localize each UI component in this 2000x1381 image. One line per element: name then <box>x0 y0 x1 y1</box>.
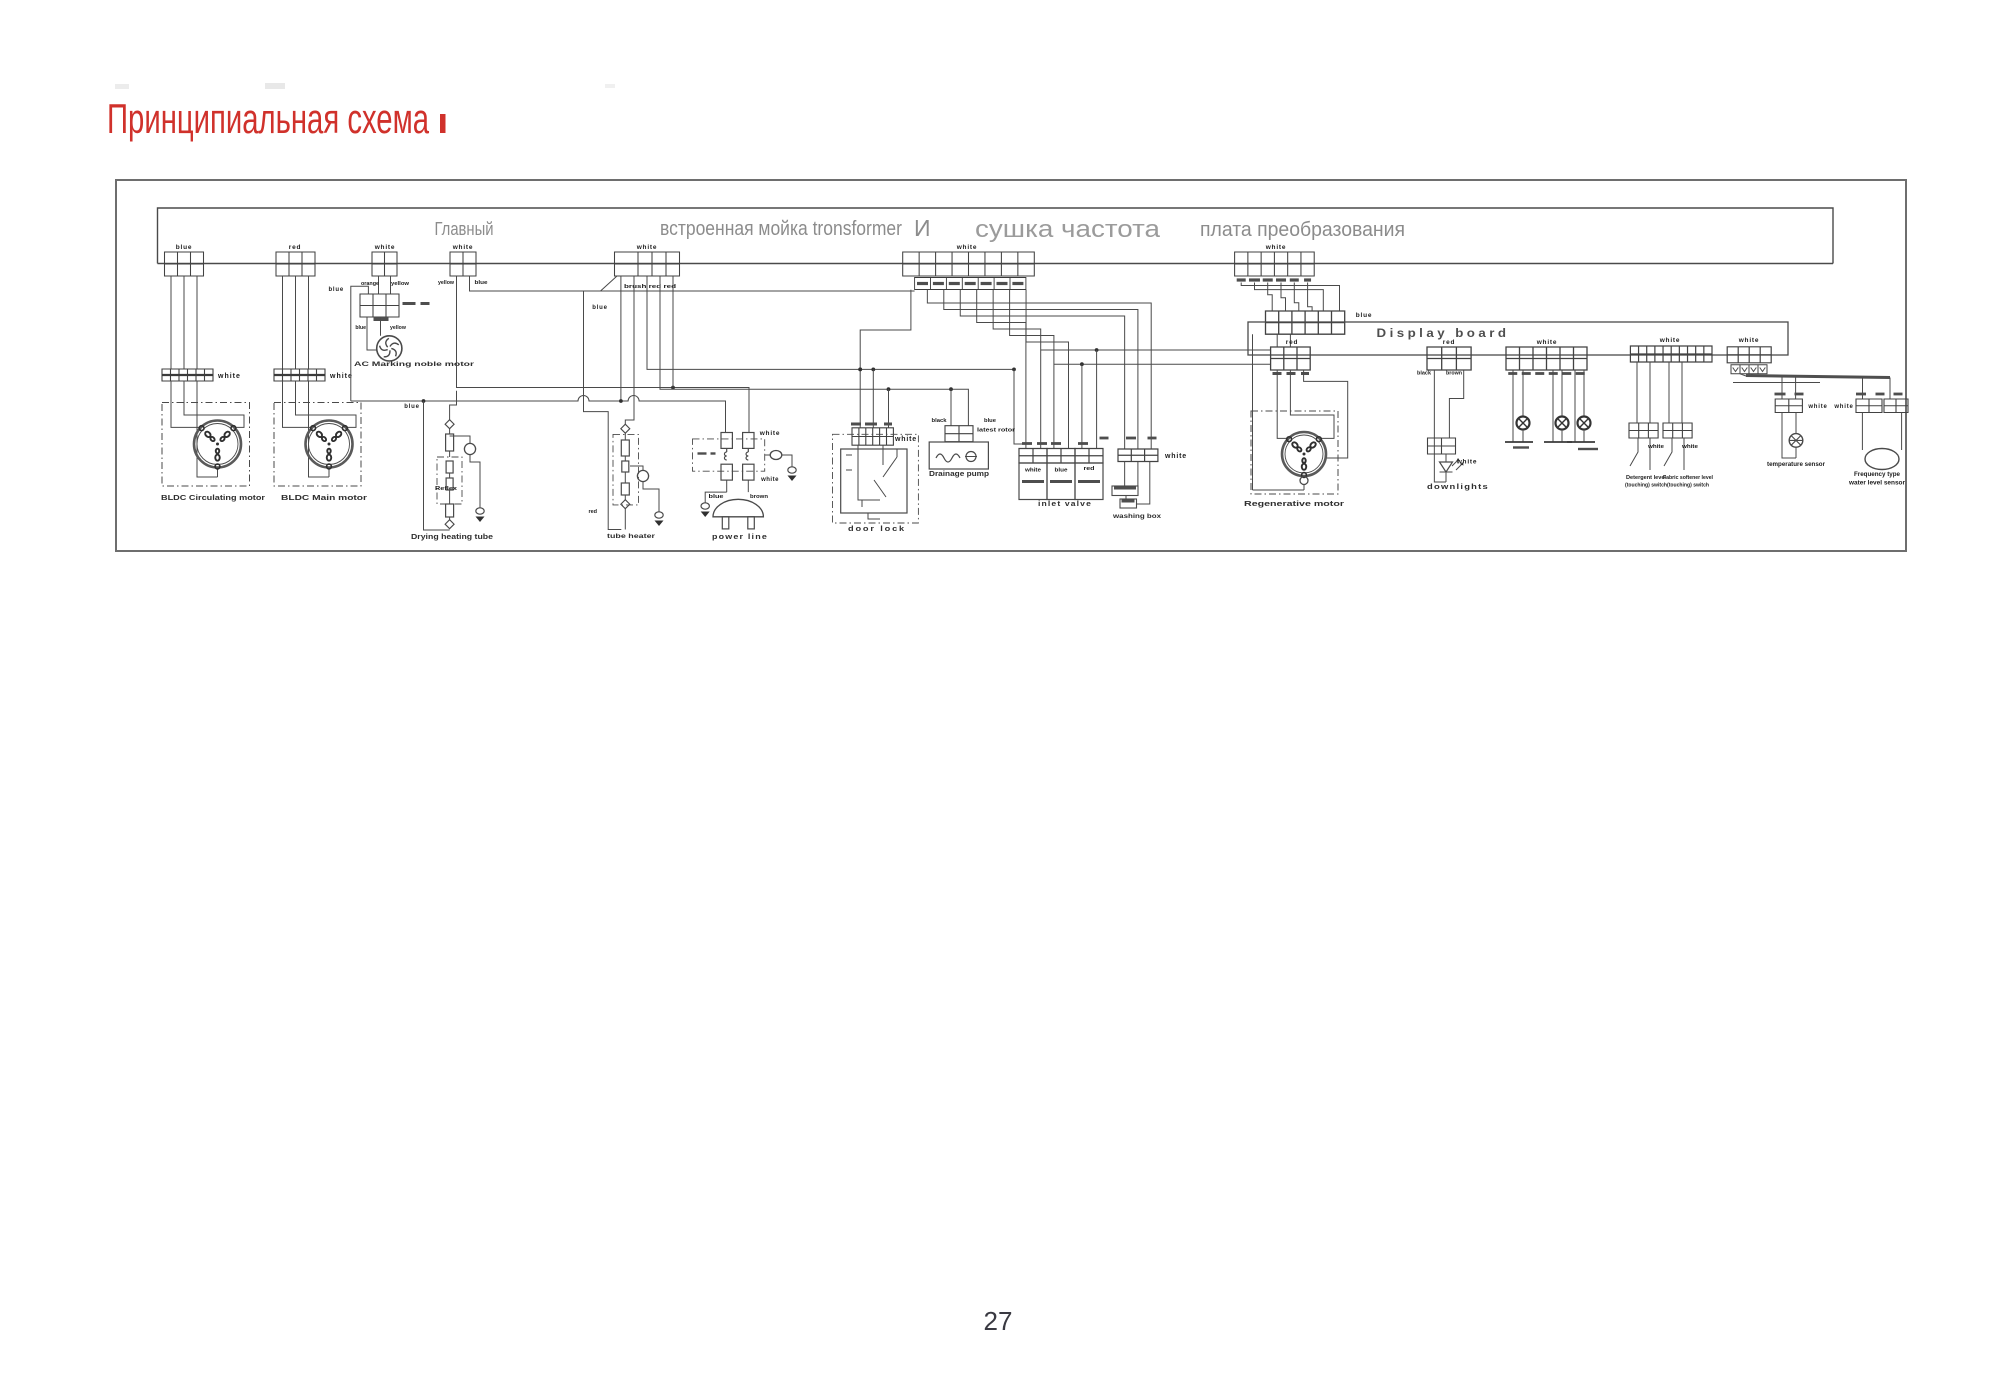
regenerative motor <box>1282 432 1326 476</box>
faint header artifacts <box>115 84 129 89</box>
svg-text:red: red <box>289 244 302 251</box>
svg-text:плата преобразования: плата преобразования <box>1200 219 1405 241</box>
wires J2 to motor M2 <box>283 381 313 427</box>
svg-text:Detergent level: Detergent level <box>1626 475 1667 481</box>
ground under tube heater <box>658 507 660 512</box>
motor M1 (BLDC circulating motor) <box>194 421 241 468</box>
svg-text:water level sensor: water level sensor <box>1848 481 1906 487</box>
svg-text:white: white <box>636 244 658 251</box>
drainage pump connector <box>945 426 973 442</box>
svg-text:blue: blue <box>475 280 488 286</box>
drying heating tube chain <box>445 420 454 429</box>
svg-text:white: white <box>1536 339 1558 346</box>
fan motor (AC) circle <box>377 336 402 361</box>
svg-text:сушка частота: сушка частота <box>975 216 1161 243</box>
wire CN5 pin2 to tube heater top <box>625 276 634 424</box>
junction strip J2 (white) <box>274 369 325 381</box>
svg-text:inlet valve: inlet valve <box>1038 499 1092 508</box>
connector CN5 (white) <box>615 252 680 276</box>
svg-text:встроенная мойка tronsformer: встроенная мойка tronsformer <box>660 218 902 240</box>
connector W3 (white) <box>1506 347 1587 370</box>
wire drop x583 to tube heater loop <box>584 291 622 530</box>
filter fuse right <box>743 433 754 449</box>
plug prong left <box>722 517 729 529</box>
CN7 to blue connector staircase wires <box>1241 283 1339 312</box>
svg-text:white: white <box>1647 444 1664 450</box>
wire L-upper from CN4 pin1 to filter <box>457 276 750 433</box>
svg-text:blue: blue <box>328 287 344 293</box>
wire CN4 pin2 to node at y291 <box>470 276 584 291</box>
detergent level switch symbol <box>1630 438 1638 466</box>
tube heater box (dash-dot) <box>613 434 639 505</box>
temperature sensor connector <box>1775 399 1802 413</box>
svg-text:white: white <box>1659 337 1681 344</box>
connector CN2 (red) <box>276 252 315 276</box>
svg-text:white: white <box>329 373 353 380</box>
wires T1 to fan motor <box>367 317 377 350</box>
svg-text:red: red <box>1443 339 1456 346</box>
filter inner marks <box>698 452 707 454</box>
long wire to regenerative area (b) <box>1054 363 1271 365</box>
filter coils <box>724 448 748 460</box>
svg-text:white: white <box>1833 404 1853 410</box>
svg-text:power line: power line <box>712 532 768 541</box>
door lock inner body <box>841 449 907 513</box>
wires J1 to motor M1 <box>171 381 201 427</box>
motor M2 (BLDC main motor) <box>306 421 353 468</box>
wire CNB pin1 down left side <box>1252 334 1254 490</box>
junction strip J1 (white) <box>162 369 213 381</box>
wire CN6 pin4 staircase to washing box <box>960 290 1124 449</box>
svg-text:27: 27 <box>984 1306 1013 1336</box>
filter lower fuse right <box>743 464 754 480</box>
svg-text:brush red red: brush red red <box>624 284 676 290</box>
tube heater thermostat <box>630 466 643 471</box>
svg-text:blue: blue <box>984 418 996 424</box>
connector W5 (white) <box>1727 347 1771 363</box>
wires CN1 to junction strip J1 <box>171 276 197 369</box>
pump coil and rotor <box>936 454 960 462</box>
tube heater chain <box>621 424 630 433</box>
wire bundle to sensors <box>1740 374 1755 376</box>
connector CN4 (white) <box>450 252 476 276</box>
water level sensor connector A <box>1856 399 1882 413</box>
svg-text:white: white <box>1265 244 1287 251</box>
connector CN7 (white) <box>1235 252 1315 276</box>
switch connector Sa <box>1629 423 1658 438</box>
svg-text:black: black <box>932 418 947 424</box>
connector CN3 (white) <box>372 252 397 276</box>
connector R2 (red) <box>1427 347 1471 370</box>
wires R2 to downlight connector <box>1434 370 1446 482</box>
svg-text:Frequency type: Frequency type <box>1854 472 1901 478</box>
wire CN6 pin1 to H1 (door lock feed) <box>860 290 911 370</box>
wires CN2 to junction strip J2 <box>283 276 309 369</box>
T1 bottom mark <box>374 317 389 321</box>
svg-text:white: white <box>956 244 978 251</box>
filter lower fuse left <box>721 464 732 480</box>
svg-text:white: white <box>1738 337 1760 344</box>
noise filter box (dash-dot) <box>693 439 765 471</box>
svg-text:latest rotor: latest rotor <box>977 428 1015 434</box>
motor box M2 (dash-dot) <box>274 403 361 487</box>
water level sensor body (ellipse) <box>1862 413 1901 451</box>
svg-text:downlights: downlights <box>1427 482 1489 491</box>
door lock mechanism <box>858 445 880 500</box>
door lock box (dash-dot) <box>833 434 919 523</box>
wires filter to plug <box>727 480 749 492</box>
svg-text:white: white <box>452 244 474 251</box>
plug prong right <box>748 517 755 529</box>
svg-text:brown: brown <box>750 494 769 500</box>
W5 capacitor cells <box>1731 365 1767 374</box>
wire CN6 pin8 staircase to inlet valve 2 <box>1026 290 1068 449</box>
R1 pin labels <box>1273 372 1282 375</box>
wire CN6 pin2 staircase to washing box <box>927 290 1151 449</box>
svg-text:white: white <box>1681 444 1698 450</box>
drying tube hanger from L-upper <box>450 391 457 420</box>
wire H1 from CN5 pin3 to door lock <box>647 276 1014 369</box>
drying tube thermostat branch <box>450 436 470 443</box>
svg-text:BLDC Main motor: BLDC Main motor <box>281 495 367 502</box>
washing box connector <box>1118 449 1158 462</box>
svg-text:Fabric softener level: Fabric softener level <box>1663 475 1714 481</box>
svg-text:Reflex: Reflex <box>435 486 458 492</box>
main bus line <box>158 263 1834 265</box>
regenerative motor box (dash-dot) <box>1251 411 1338 494</box>
wire CN5 pin5 drop to L-upper <box>672 276 674 388</box>
svg-text:tube heater: tube heater <box>607 533 656 540</box>
long wire to regenerative area (a) <box>1041 349 1271 351</box>
svg-text:temperature sensor: temperature sensor <box>1767 462 1826 468</box>
wire CN5 pin1 drop <box>620 276 622 401</box>
svg-text:door lock: door lock <box>848 524 906 533</box>
svg-text:white: white <box>759 430 781 437</box>
drainage pump body <box>929 442 988 469</box>
drying tube feed junction <box>422 399 426 403</box>
svg-text:blue: blue <box>176 244 193 251</box>
wires W4 to switch connectors <box>1637 362 1682 423</box>
svg-text:Drainage pump: Drainage pump <box>929 471 989 478</box>
svg-text:И: И <box>914 215 931 241</box>
svg-text:yellow: yellow <box>390 325 407 331</box>
svg-text:Принципиальная схема: Принципиальная схема <box>107 95 429 142</box>
terminal block T1 <box>360 294 399 317</box>
svg-text:Drying heating tube: Drying heating tube <box>411 534 493 541</box>
wire blue into T1 <box>351 286 369 401</box>
svg-text:(touching) switch: (touching) switch <box>1667 483 1709 489</box>
pump connector to body wires <box>952 441 966 443</box>
wires R1 to regenerative motor <box>1277 370 1288 438</box>
svg-text:red: red <box>588 509 597 515</box>
main board outline (top band) <box>158 208 1834 264</box>
svg-text:white: white <box>217 373 241 380</box>
temperature sensor element <box>1782 413 1796 459</box>
CN6 pin label boxes <box>915 278 1026 290</box>
svg-text:blue: blue <box>1356 312 1373 319</box>
display board outline <box>1248 322 1788 355</box>
svg-text:white: white <box>894 436 917 443</box>
T1 side label <box>403 302 416 305</box>
connector CN6 (white) <box>903 252 1035 276</box>
W3 pin labels <box>1508 372 1517 375</box>
wire line2 from CN5 pin4 to drainage pump <box>660 276 968 426</box>
svg-text:red: red <box>1286 339 1299 346</box>
filter earth clip circle <box>770 451 782 460</box>
svg-text:Regenerative motor: Regenerative motor <box>1244 499 1344 508</box>
inlet valve feed labels <box>1022 442 1032 445</box>
svg-text:blue: blue <box>592 305 608 311</box>
svg-text:(touching) switch: (touching) switch <box>1625 483 1667 489</box>
indicator lamp 1 <box>1513 370 1523 442</box>
indicator lamp 3 <box>1575 370 1584 442</box>
red marker bar after title <box>440 114 446 133</box>
wires CNB to R1 <box>1277 334 1290 347</box>
downlight LED symbol <box>1445 454 1447 462</box>
power plug half-dome <box>713 499 763 517</box>
regenerative motor bottom loop <box>1253 489 1305 491</box>
wire L-lower with jump-overs <box>351 396 726 433</box>
svg-text:blue: blue <box>404 404 420 410</box>
svg-text:white: white <box>760 477 779 483</box>
svg-text:blue: blue <box>355 325 366 331</box>
wire CN6 pin3 staircase to washing box <box>944 290 1138 449</box>
svg-text:brown: brown <box>1446 371 1462 377</box>
wire CN5 pin1 diagonal to node291 <box>601 276 618 291</box>
bundle drops <box>1782 377 1890 399</box>
connector W4 (white) <box>1630 346 1712 362</box>
plug earth wire and ground <box>705 492 727 498</box>
svg-text:white: white <box>374 244 396 251</box>
washing box feed labels <box>1100 437 1109 440</box>
CN7 pin labels <box>1237 278 1246 281</box>
svg-text:white: white <box>1024 468 1042 474</box>
indicator lamp 2 <box>1553 370 1562 442</box>
water level sensor connector B <box>1884 399 1908 413</box>
switch connector Sb <box>1663 423 1692 438</box>
svg-text:yellow: yellow <box>391 281 410 287</box>
svg-text:white: white <box>1807 404 1827 410</box>
svg-text:blue: blue <box>709 494 724 500</box>
svg-text:Главный: Главный <box>435 219 494 239</box>
svg-text:washing box: washing box <box>1112 513 1162 520</box>
temperature sensor pin labels <box>1775 393 1786 396</box>
wire CN6 pin5 staircase to inlet valve 1 <box>977 290 1026 449</box>
wire CN6 pin6 staircase to inlet valve 1 <box>993 290 1041 449</box>
svg-text:white: white <box>1164 453 1187 460</box>
water level sensor pin labels <box>1856 393 1866 396</box>
motor box M1 (dash-dot) <box>162 403 250 487</box>
fabric softener level switch symbol <box>1664 438 1672 466</box>
svg-text:red: red <box>1084 466 1095 472</box>
filter fuse left <box>721 433 732 449</box>
svg-text:yellow: yellow <box>438 280 455 286</box>
door lock connector <box>852 428 893 445</box>
connector R1 (red) <box>1271 347 1311 370</box>
ground right of filter <box>791 462 793 467</box>
outer frame <box>116 180 1906 551</box>
wire CN6 pin7 staircase to inlet valve 2 <box>1010 290 1054 449</box>
connector CN1 (blue) <box>165 252 204 276</box>
wire node291 to CN6 label row <box>584 290 915 292</box>
inlet valve block assembly <box>1019 449 1047 464</box>
wires CN3 to terminal block T1 <box>379 276 391 294</box>
svg-text:black: black <box>1417 371 1431 377</box>
washing box elements <box>1125 462 1138 487</box>
connector CNB (blue) on display board <box>1266 311 1345 334</box>
svg-text:blue: blue <box>1055 468 1068 474</box>
downlight connector D2 <box>1428 438 1456 454</box>
door lock pin labels <box>851 423 861 426</box>
ground under drying tube thermostat <box>479 503 481 508</box>
svg-text:BLDC Circulating motor: BLDC Circulating motor <box>161 495 265 502</box>
